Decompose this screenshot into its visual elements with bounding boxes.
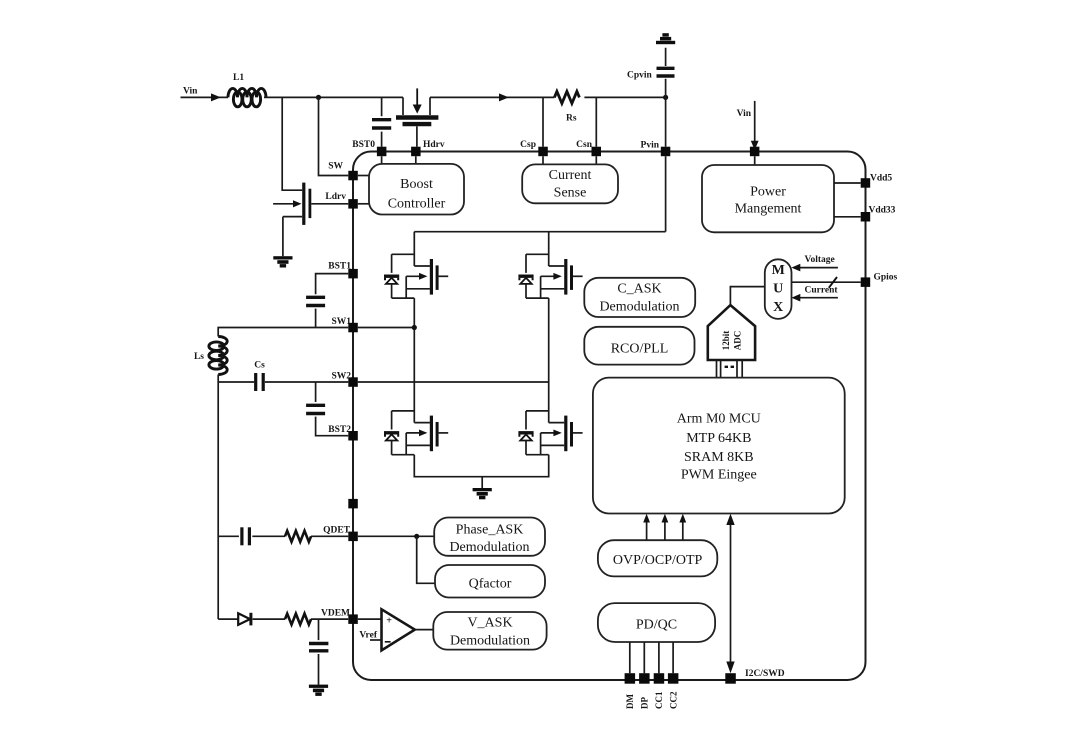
mux M U X — [765, 259, 792, 319]
transistor Q3 — [518, 254, 582, 298]
svg-text:C_ASK: C_ASK — [617, 282, 661, 297]
wire bridge top rail — [414, 231, 665, 233]
wire SW2 internal — [358, 298, 549, 423]
wire Csn stub2 — [595, 156, 597, 164]
wire VDEM cap branch — [318, 619, 320, 685]
svg-text:Current: Current — [805, 285, 839, 295]
transistor high-side boost pass FET — [396, 88, 438, 146]
pin Gpios — [861, 277, 871, 287]
wire opamp output — [415, 629, 434, 631]
capacitor BST2 — [306, 405, 325, 413]
wire I2C double arrow — [726, 514, 734, 673]
svg-text:CC2: CC2 — [668, 691, 678, 709]
resistor VDEM — [285, 614, 311, 625]
wire Csp stub2 — [542, 156, 544, 164]
wire QDET internal — [358, 535, 434, 537]
svg-text:Demodulation: Demodulation — [449, 540, 529, 555]
svg-text:Vin: Vin — [183, 87, 198, 97]
pin unnamed — [348, 499, 358, 509]
wire Voltage arrow — [791, 255, 838, 271]
wire QDET external — [218, 535, 348, 537]
svg-text:I2C/SWD: I2C/SWD — [745, 669, 785, 679]
wire Vin PM arrow — [737, 101, 759, 165]
capacitor BST1 — [306, 297, 325, 305]
svg-text:Demodulation: Demodulation — [599, 300, 679, 315]
block V_ASK Demodulation — [433, 612, 546, 650]
pin SW2 — [348, 377, 358, 387]
svg-text:Hdrv: Hdrv — [423, 140, 445, 150]
wire after Rs — [584, 96, 665, 98]
svg-text:OVP/OCP/OTP: OVP/OCP/OTP — [613, 553, 703, 568]
block C_ASK Demodulation — [584, 278, 695, 317]
wire Q1 drain branch — [282, 97, 302, 190]
svg-text:Demodulation: Demodulation — [450, 634, 530, 649]
svg-text:SW2: SW2 — [331, 372, 351, 382]
wire BST0 stub — [381, 156, 383, 164]
wire Ls to SW2 — [217, 375, 219, 383]
svg-text:CC1: CC1 — [654, 691, 664, 709]
pin BST0 — [377, 147, 387, 157]
wire Current arrow — [791, 285, 838, 301]
pin SW1 — [348, 323, 358, 333]
wire Vref stub — [370, 639, 382, 641]
svg-text:DP: DP — [640, 697, 650, 709]
wire top rail — [264, 97, 403, 115]
svg-text:X: X — [773, 300, 783, 315]
wire bridge bottom rail — [414, 455, 548, 488]
svg-text:BST0: BST0 — [352, 140, 375, 150]
capacitor QDET — [242, 527, 250, 545]
svg-text:SW1: SW1 — [331, 317, 351, 327]
svg-text:12bit: 12bit — [721, 331, 731, 351]
pin Vdd5 — [861, 178, 871, 188]
svg-text:DM: DM — [625, 694, 635, 709]
svg-text:SRAM 8KB: SRAM 8KB — [684, 450, 754, 465]
svg-text:Sense: Sense — [554, 186, 587, 201]
pin Vin PM — [750, 147, 760, 157]
wire to current sense with arrow — [430, 97, 554, 115]
wire VDEM internal — [358, 618, 382, 620]
ground bridge — [473, 488, 492, 499]
svg-text:PWM Eingee: PWM Eingee — [681, 468, 757, 483]
wire Vdd5 — [834, 182, 861, 184]
pin BST2 — [348, 431, 358, 441]
node junction dot SW — [316, 95, 321, 100]
bus slash — [829, 277, 837, 288]
capacitor BST0 — [372, 97, 391, 146]
node junction dot QDET — [414, 534, 419, 539]
svg-text:Vdd33: Vdd33 — [869, 206, 896, 216]
pin Vdd33 — [861, 212, 871, 222]
wire BST2 external — [316, 382, 349, 436]
wire SW2 external — [218, 381, 348, 383]
ground below Q1 — [273, 256, 292, 267]
node junction dot Cpvin — [663, 95, 668, 100]
wire MUX to ADC — [730, 287, 764, 306]
resistor Rs — [554, 91, 579, 103]
transistor Q5 — [518, 411, 582, 455]
svg-text:Csp: Csp — [520, 140, 536, 150]
svg-text:MTP 64KB: MTP 64KB — [686, 431, 751, 446]
ground VDEM — [309, 685, 328, 696]
svg-text:V_ASK: V_ASK — [467, 616, 512, 631]
pin DM — [625, 673, 636, 684]
wire SW branch — [319, 97, 349, 175]
svg-text:Rs: Rs — [566, 114, 577, 124]
svg-text:Pvin: Pvin — [641, 141, 660, 151]
wire Vin input with arrow — [181, 96, 229, 98]
block Current Sense — [522, 164, 618, 203]
svg-text:Csn: Csn — [576, 140, 593, 150]
wire Hdrv stub — [415, 156, 417, 164]
svg-text:Voltage: Voltage — [805, 255, 835, 265]
svg-text:U: U — [773, 282, 783, 297]
svg-text:BST2: BST2 — [328, 425, 351, 435]
pin Hdrv — [411, 147, 421, 157]
adc pins — [717, 360, 743, 378]
diode VDEM — [238, 613, 251, 626]
svg-text:BST1: BST1 — [328, 262, 351, 272]
node junction dot SW1 — [412, 325, 417, 330]
svg-text:Vin: Vin — [737, 109, 752, 119]
svg-text:Vdd5: Vdd5 — [870, 174, 892, 184]
svg-text:QDET: QDET — [323, 526, 351, 536]
transistor Q4 — [384, 411, 448, 455]
pin Pvin — [661, 147, 671, 157]
capacitor Cpvin — [627, 48, 675, 98]
pin Ldrv — [348, 199, 358, 209]
svg-text:Boost: Boost — [400, 177, 433, 192]
block Boost Controller — [369, 164, 464, 215]
chip outline U1 — [353, 152, 866, 681]
svg-text:VDEM: VDEM — [321, 609, 350, 619]
pin Csn — [592, 147, 602, 157]
wire Gpios bus — [792, 281, 861, 283]
wire left vertical rail — [217, 382, 219, 619]
wire PD/QC pins — [630, 642, 673, 673]
block Arm M0 MCU — [593, 378, 845, 514]
wire Csp stub — [542, 97, 544, 146]
svg-text:RCO/PLL: RCO/PLL — [611, 342, 669, 357]
wire Pvin drop — [665, 97, 667, 146]
pin I2C/SWD — [725, 673, 736, 684]
wire Q2 drain — [413, 232, 415, 266]
wire SW1 internal — [358, 298, 415, 423]
pin BST1 — [348, 269, 358, 279]
svg-text:Ls: Ls — [194, 352, 204, 362]
block Phase_ASK Demodulation — [434, 518, 545, 556]
svg-text:Vref: Vref — [359, 631, 377, 641]
svg-text:Cs: Cs — [254, 361, 265, 371]
block RCO/PLL — [584, 327, 694, 365]
op-amp comparator — [382, 609, 415, 650]
pin SW — [348, 171, 358, 181]
wire OVP arrows — [643, 514, 686, 540]
wire SW into Boost — [358, 175, 369, 177]
svg-text:Mangement: Mangement — [735, 202, 802, 217]
transistor Q2 — [384, 254, 448, 298]
pin QDET — [348, 532, 358, 542]
wire SW1 external — [218, 328, 348, 337]
svg-text:SW: SW — [328, 162, 343, 172]
svg-text:Ldrv: Ldrv — [325, 192, 346, 202]
pin VDEM — [348, 614, 358, 624]
wire Qfactor branch — [417, 536, 435, 583]
capacitor Cs — [254, 361, 265, 392]
wire Vdd33 — [834, 216, 861, 218]
svg-text:Power: Power — [750, 185, 786, 200]
transistor Q1 low-side boost — [273, 183, 348, 257]
wire Ldrv into Boost — [358, 203, 369, 205]
svg-text:Cpvin: Cpvin — [627, 71, 653, 81]
svg-text:Current: Current — [549, 168, 592, 183]
svg-text:Qfactor: Qfactor — [469, 577, 512, 592]
wire VDEM external — [218, 618, 348, 620]
adc 12bit ADC — [708, 305, 755, 360]
svg-text:Gpios: Gpios — [874, 273, 898, 283]
svg-text:ADC: ADC — [732, 331, 742, 351]
svg-text:Arm M0 MCU: Arm M0 MCU — [677, 412, 761, 427]
wire Pvin to bridge rail — [665, 156, 667, 232]
wire BST1 external — [316, 274, 349, 328]
svg-text:PD/QC: PD/QC — [636, 618, 677, 633]
block Power Mangement — [702, 165, 834, 232]
capacitor VDEM filter — [309, 644, 328, 651]
pin CC2 — [668, 673, 679, 684]
wire Q3 drain — [548, 232, 550, 266]
pin DP — [639, 673, 650, 684]
pin Csp — [538, 147, 548, 157]
svg-text:Phase_ASK: Phase_ASK — [456, 523, 524, 538]
resistor QDET — [285, 531, 311, 542]
block Qfactor — [435, 565, 545, 598]
svg-text:M: M — [772, 263, 785, 278]
block OVP/OCP/OTP — [598, 540, 717, 576]
adc dashes — [725, 366, 735, 368]
wire Csn stub — [595, 97, 597, 146]
pin CC1 — [654, 673, 665, 684]
svg-text:+: + — [386, 616, 392, 627]
svg-text:L1: L1 — [233, 73, 244, 83]
block PD/QC — [598, 603, 715, 642]
svg-text:Controller: Controller — [388, 197, 446, 212]
ground above Cpvin — [656, 33, 675, 44]
